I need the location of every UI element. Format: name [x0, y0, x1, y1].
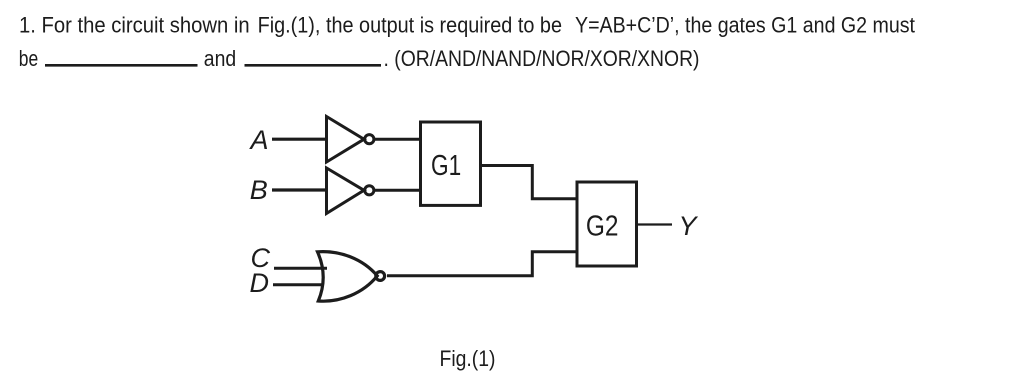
wire from D to NOR gate: [273, 283, 323, 286]
svg-text:Fig.(1), the output is require: Fig.(1), the output is required to be: [258, 12, 562, 37]
inverter (NOT gate) on A input: [327, 117, 374, 163]
inverter (NOT gate) on B input: [327, 168, 374, 213]
wire from A to inverter 1: [272, 138, 327, 141]
svg-text:Fig.(1): Fig.(1): [440, 346, 496, 371]
svg-text:1. For the circuit shown in: 1. For the circuit shown in: [19, 12, 250, 37]
wire inverter 1 to G1: [374, 138, 421, 141]
NOR gate (OR shape with bubble) on C,D: [318, 252, 385, 302]
gate box G1: [421, 122, 481, 205]
svg-text:and: and: [204, 46, 236, 71]
svg-text:D: D: [250, 268, 270, 298]
svg-text:G1: G1: [431, 150, 461, 182]
wire G1 output to G2 top input (step): [481, 166, 578, 199]
wire from B to inverter 2: [272, 188, 327, 191]
gate box G2: [577, 182, 637, 266]
blank underline 2: [245, 64, 382, 67]
wire G2 output to Y: [637, 223, 673, 225]
wire from C to NOR gate: [274, 267, 327, 270]
svg-text:B: B: [250, 175, 268, 205]
svg-text:. (OR/AND/NAND/NOR/XOR/XNOR): . (OR/AND/NAND/NOR/XOR/XNOR): [384, 46, 700, 71]
blank underline 1: [45, 64, 198, 67]
svg-text:Y: Y: [679, 211, 699, 241]
svg-text:Y=AB+C’D’, the gates G1 and G2: Y=AB+C’D’, the gates G1 and G2 must: [575, 12, 915, 37]
svg-text:A: A: [249, 125, 269, 155]
wire NOR output to G2 bottom input (step): [387, 252, 577, 276]
svg-text:be: be: [19, 46, 38, 71]
wire inverter 2 to G1: [374, 189, 421, 192]
svg-text:G2: G2: [586, 210, 619, 242]
